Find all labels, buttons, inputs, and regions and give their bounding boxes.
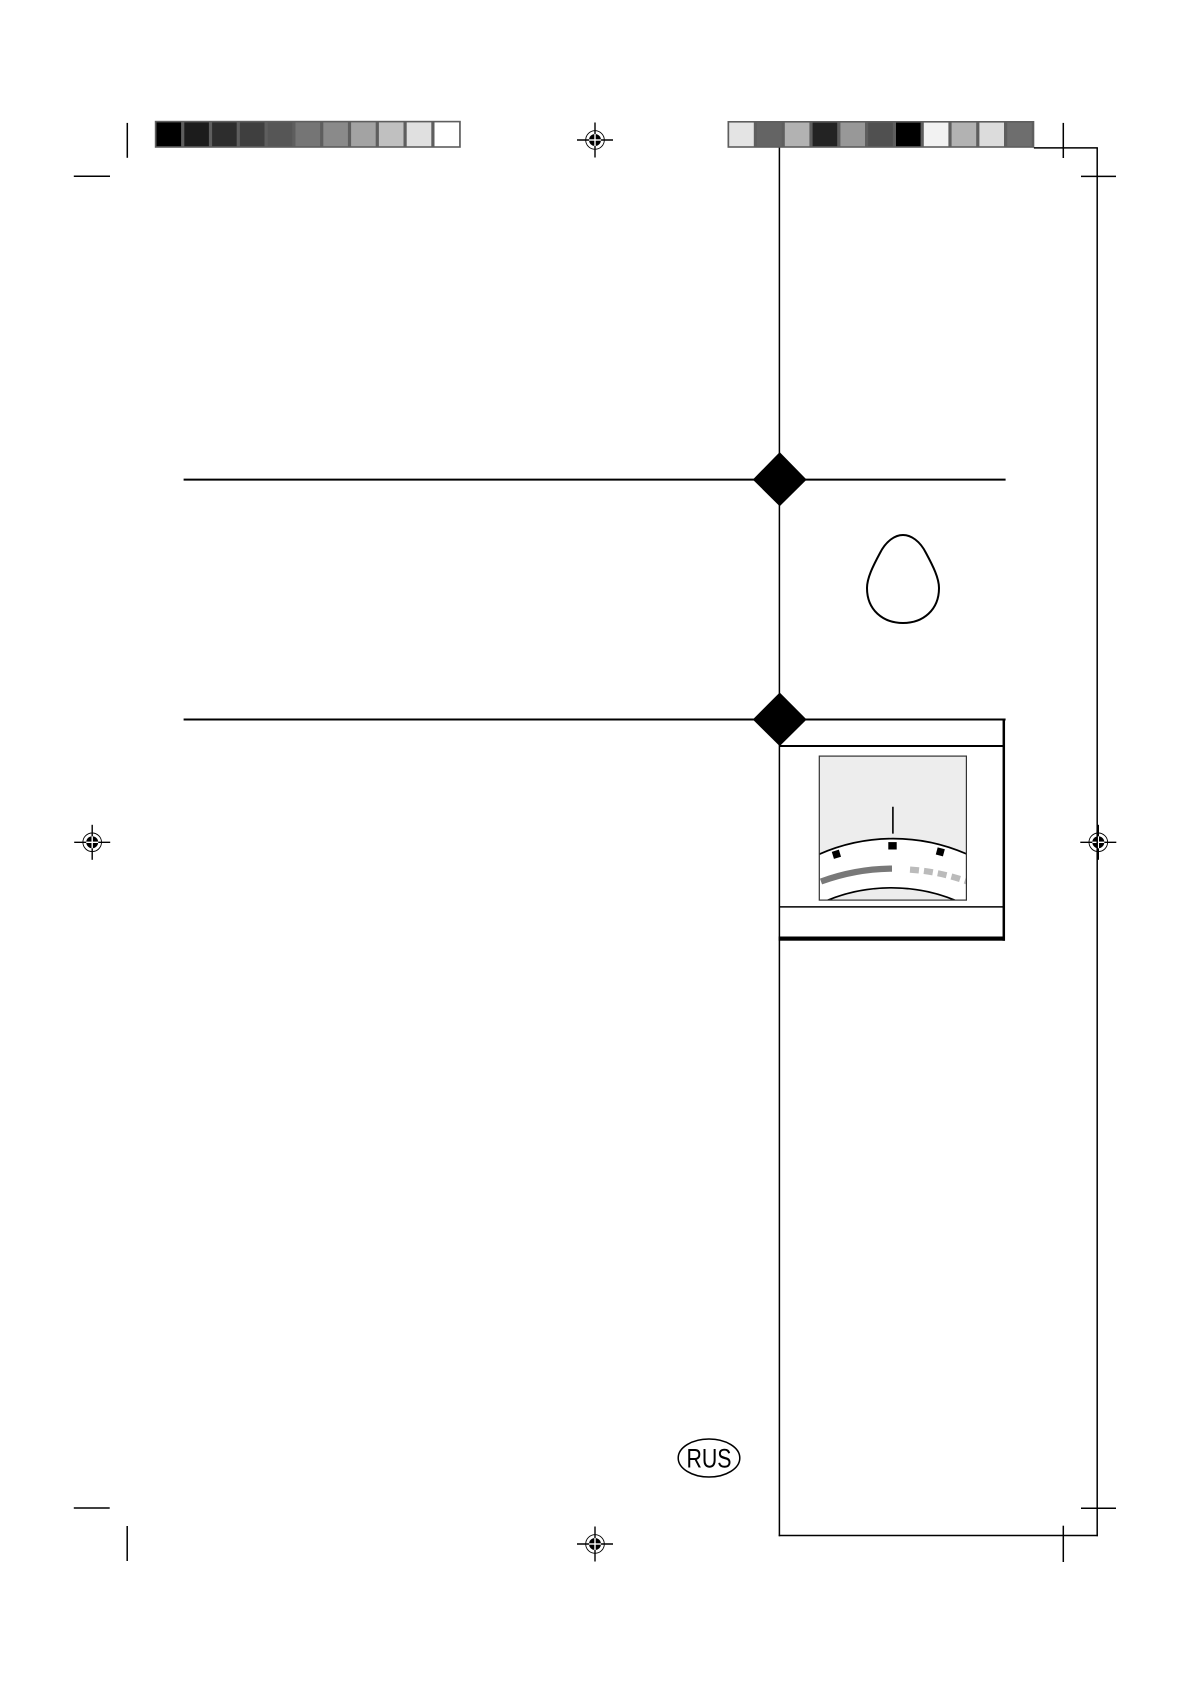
- svg-text:RUS: RUS: [687, 1443, 732, 1473]
- crop mark bottom-right horizontal: [1081, 1507, 1116, 1509]
- dial tick left: [832, 850, 841, 859]
- right column frame right vertical line: [1096, 148, 1098, 1536]
- dial needle: [892, 807, 894, 834]
- dial lower arc: [820, 888, 962, 904]
- crop mark bottom-right vertical: [1062, 1526, 1064, 1562]
- registration mark left middle: [74, 825, 110, 860]
- registration mark top center: [577, 123, 613, 158]
- dial upper arc: [819, 839, 966, 855]
- crop mark top-right horizontal: [1081, 175, 1116, 177]
- crop mark top-left vertical: [126, 123, 128, 158]
- dial white band: [819, 839, 966, 900]
- right column frame left vertical line: [778, 148, 780, 1537]
- right column frame top segment: [1034, 147, 1098, 149]
- diamond marker on rule 1: [753, 452, 807, 506]
- diamond marker on rule 2: [753, 693, 807, 747]
- right column frame bottom line: [779, 1535, 1098, 1537]
- figure frame inner top line: [779, 745, 1005, 747]
- registration mark right middle: [1080, 825, 1116, 860]
- dial dashed gray scale band: [910, 870, 968, 882]
- crop mark top-left horizontal: [74, 175, 110, 177]
- crop mark top-right vertical: [1062, 123, 1064, 158]
- figure frame right edge: [1003, 720, 1006, 941]
- horizontal rule 2: [184, 719, 1006, 721]
- crop mark bottom-left horizontal: [74, 1507, 110, 1509]
- horizontal rule 1: [184, 479, 1006, 481]
- left grayscale calibration bar: [155, 121, 461, 148]
- figure frame inner bottom line: [779, 906, 1005, 908]
- figure picture background: [819, 756, 966, 900]
- figure frame bottom thick bar: [779, 937, 1005, 941]
- dial lower gray lens: [826, 887, 956, 900]
- crop mark bottom-left vertical: [126, 1526, 128, 1561]
- RUS language badge oval: [678, 1439, 740, 1477]
- figure picture border: [819, 756, 966, 900]
- right grayscale calibration bar: [728, 121, 1035, 148]
- dial solid gray scale band: [821, 869, 892, 882]
- registration mark bottom center: [577, 1527, 613, 1562]
- dial tick right: [936, 847, 945, 856]
- dial tick center: [888, 842, 896, 849]
- egg shape: [867, 535, 939, 623]
